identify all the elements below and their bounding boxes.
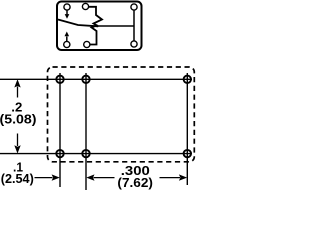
dimension arrow right (.300) [160, 174, 188, 180]
centerline column C [186, 73, 188, 185]
centerline column A [59, 73, 61, 187]
pin 4 (bottom-left) [64, 41, 70, 47]
coil arrow from pin 1 (down) [65, 11, 70, 19]
dimension arrow up (.2 top) [14, 79, 20, 97]
pad A2 [56, 150, 63, 157]
svg-text:(5.08): (5.08) [0, 111, 37, 126]
dimension arrow right (.1) [35, 174, 60, 180]
relay outline K1 (top view) [57, 2, 142, 51]
pad C2 [184, 150, 191, 157]
centerline column B [85, 73, 87, 190]
pin 6 (bottom-right) [131, 41, 137, 47]
dimension arrow left (.300) [86, 174, 114, 180]
pin 3 (top-right) [131, 4, 137, 10]
top row centerline [0, 78, 192, 80]
pin 5 (bottom-middle) [84, 41, 90, 47]
pad C1 [184, 76, 191, 83]
bottom row centerline [0, 153, 192, 155]
pad B2 [82, 150, 89, 157]
svg-text:(2.54): (2.54) [1, 171, 34, 186]
pin 2 (top-middle) [82, 3, 88, 9]
svg-text:(7.62): (7.62) [117, 175, 153, 190]
coil arrow from pin 4 (up) [65, 32, 70, 42]
dimension arrow down (.2 bottom) [14, 134, 20, 154]
PCB outline (dashed) [48, 67, 195, 162]
pad B1 [82, 76, 89, 83]
pad A1 [56, 76, 63, 83]
armature wire (diagonal) [58, 20, 98, 27]
pin 1 (top-left) [64, 4, 70, 10]
wire joining pin 3 and pin 6 [133, 11, 135, 41]
contact spring wire from pin 2 (zigzag) [89, 7, 102, 27]
contact spring wire from pin 5 (zigzag) [90, 25, 98, 45]
common wire to pin 3/6 column [98, 25, 134, 27]
